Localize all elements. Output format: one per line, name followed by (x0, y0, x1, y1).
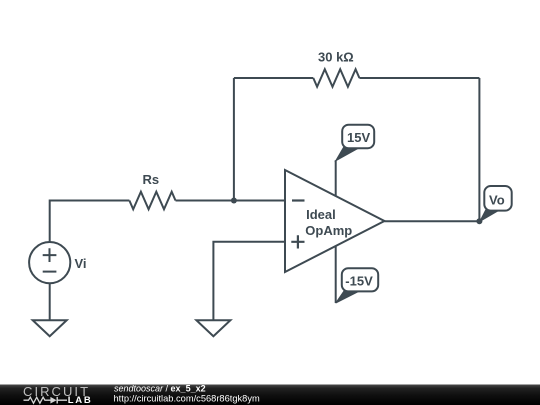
resistor R2 30 kOhm (313, 69, 359, 87)
wire op-amp output (385, 220, 480, 222)
svg-text:30 kΩ: 30 kΩ (318, 50, 354, 65)
svg-text:Rs: Rs (143, 172, 160, 187)
op-amp minus input symbol (292, 199, 305, 201)
footer logo diode (50, 397, 56, 404)
wire -15V supply pin (335, 246, 337, 303)
wire op-amp plus input to ground riser (213, 242, 285, 321)
footer bar (0, 385, 540, 405)
flag +15V box (342, 125, 374, 149)
svg-text:sendtooscar / ex_5_x2: sendtooscar / ex_5_x2 (114, 384, 206, 394)
svg-text:Vi: Vi (75, 256, 87, 271)
wire +15V supply pin (335, 160, 337, 196)
svg-text:Ideal: Ideal (306, 207, 336, 222)
svg-text:Vo: Vo (489, 192, 505, 207)
footer logo resistor-diode line (24, 397, 51, 403)
wire Rs to op-amp minus input (176, 200, 286, 202)
wire feedback left vertical (233, 78, 235, 201)
op-amp plus input symbol (291, 235, 304, 248)
resistor R1 Rs (129, 192, 175, 210)
wire Vi top to node (50, 201, 130, 243)
svg-text:-15V: -15V (345, 274, 373, 289)
ground G2 (196, 320, 230, 336)
flag Vo tail (480, 209, 498, 222)
svg-text:http://circuitlab.com/c568r86t: http://circuitlab.com/c568r86tgk8ym (114, 393, 260, 403)
ground G1 (33, 320, 67, 336)
svg-text:OpAmp: OpAmp (305, 223, 352, 238)
flag -15V box (342, 268, 378, 291)
wire feedback top left segment (234, 77, 313, 79)
wire Vi bottom to ground (49, 283, 51, 320)
svg-text:15V: 15V (347, 130, 370, 145)
node output junction (476, 218, 482, 224)
op-amp U1 triangle (285, 170, 385, 272)
wire feedback right vertical (478, 78, 480, 221)
flag +15V tail (336, 147, 357, 161)
flag Vo box (484, 186, 511, 211)
voltage source V1 Vi (29, 242, 70, 283)
flag -15V tail (336, 290, 359, 304)
node junction A (231, 198, 237, 204)
svg-text:LAB: LAB (68, 395, 93, 405)
wire feedback top right segment (359, 77, 479, 79)
